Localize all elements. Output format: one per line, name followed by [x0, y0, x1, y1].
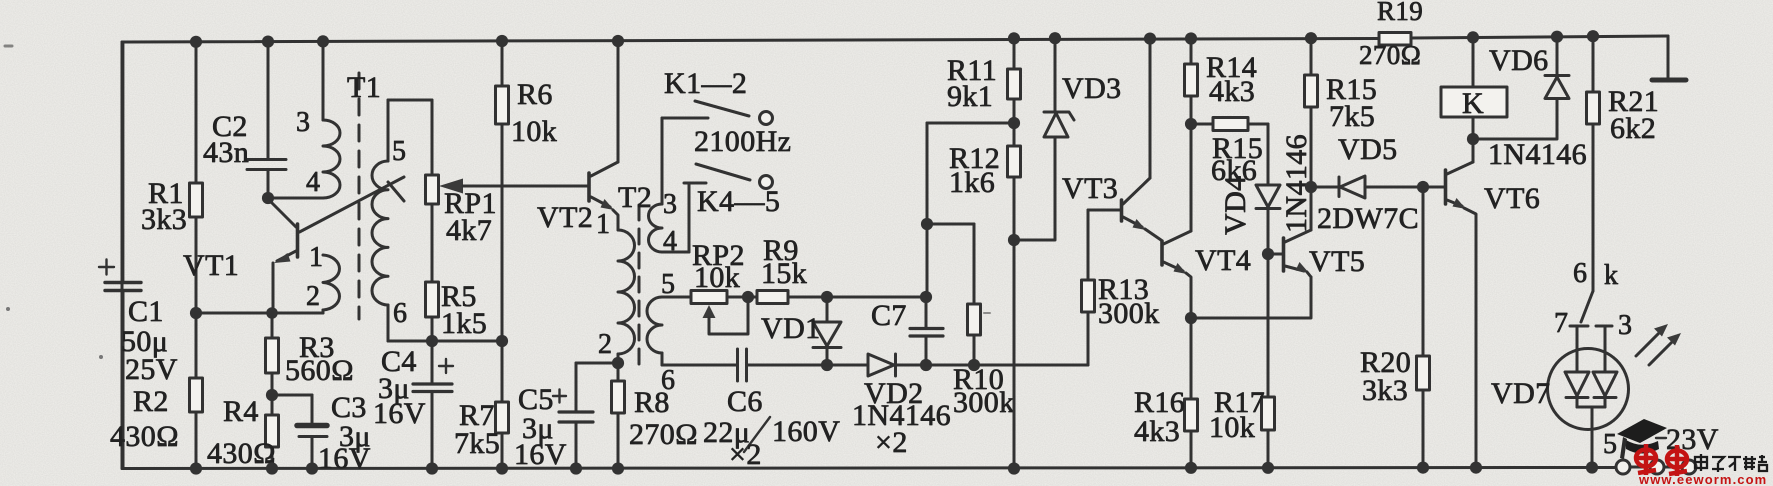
svg-text:2DW7C: 2DW7C [1317, 202, 1419, 235]
resistor R11 [947, 38, 1021, 123]
T2 core dashed line [638, 205, 641, 365]
supply terminal circles -23V [1616, 423, 1719, 474]
wire: R3/R4 node to C3 [272, 394, 312, 397]
capacitor C1 [99, 42, 178, 468]
node: relay coil / VT6 collector junction [1467, 133, 1479, 145]
optocoupler LED VD7 [1491, 326, 1629, 468]
svg-text:VT3: VT3 [1062, 172, 1118, 205]
svg-text:VT4: VT4 [1195, 244, 1251, 277]
svg-text:15k: 15k [761, 257, 807, 290]
svg-text:9k1: 9k1 [947, 80, 993, 113]
node: R20 bottom on ground bus [1417, 462, 1429, 474]
svg-text:1k5: 1k5 [441, 307, 487, 340]
node: R12 line bottom on ground bus [1008, 462, 1020, 474]
wire: detector line to R10 [926, 364, 974, 367]
svg-text:4: 4 [663, 226, 677, 257]
resistor R1 [141, 42, 203, 313]
switch K4-5 [696, 164, 780, 218]
transformer T1 primary winding pins 3-4 [296, 42, 340, 198]
svg-text:K1—2: K1—2 [664, 67, 747, 100]
svg-text:4k7: 4k7 [446, 214, 492, 247]
svg-text:VD6: VD6 [1489, 44, 1549, 77]
resistor R14 [1185, 39, 1258, 124]
svg-text:16V: 16V [318, 442, 371, 475]
transistor VT2 [537, 41, 618, 234]
svg-text:www.eeworm.com: www.eeworm.com [1638, 472, 1767, 486]
svg-text:1k6: 1k6 [949, 166, 995, 199]
resistor R7 [454, 341, 509, 469]
svg-text:2100Hz: 2100Hz [694, 125, 791, 158]
svg-text:C7: C7 [871, 299, 907, 332]
svg-text:6k2: 6k2 [1610, 112, 1656, 145]
node: VT3 collector on bus [1144, 33, 1156, 45]
svg-text:VD1: VD1 [761, 312, 821, 345]
transistor VT4 [1162, 124, 1251, 318]
resistor R6 [496, 41, 558, 341]
transformer T1 secondary winding pins 5-6 [372, 100, 407, 341]
svg-text:3: 3 [1618, 310, 1632, 341]
node: R3/R4/C3 junction [266, 389, 278, 401]
node: R6 top on bus [496, 35, 508, 47]
resistor R4 [207, 395, 279, 470]
svg-text:C6: C6 [727, 385, 763, 418]
node: R14 top on bus [1185, 32, 1197, 44]
svg-text:4k3: 4k3 [1209, 75, 1255, 108]
svg-text:1: 1 [309, 242, 323, 273]
resistor R3 [266, 313, 354, 395]
wire: collector node to T1 pin4 [268, 197, 323, 200]
node: R5 bottom junction [426, 335, 438, 347]
diode VD4 [1219, 124, 1280, 254]
wire: bottom ground bus [122, 468, 1616, 469]
svg-text:6: 6 [393, 298, 407, 329]
watermark text 电子下载站 [1695, 454, 1767, 472]
node: VD2 cathode / C7 bottom junction [920, 359, 932, 371]
svg-text:K4—5: K4—5 [697, 185, 780, 218]
svg-text:VT6: VT6 [1484, 182, 1540, 215]
wire: T1 secondary top to RP1 [388, 99, 432, 102]
svg-text:VT1: VT1 [183, 249, 239, 282]
wire: left supply rail [121, 42, 124, 469]
relay K coil [1441, 37, 1507, 139]
T1 core dashed line [358, 73, 361, 319]
node: relay top on bus [1467, 31, 1479, 43]
wire: emitter rail y=313 [196, 312, 323, 315]
svg-text:R19: R19 [1377, 0, 1423, 26]
node: R14 bottom / VT4 collector junction [1185, 118, 1197, 130]
scan speck top left [5, 45, 12, 48]
diode VD6 [1473, 37, 1569, 140]
svg-text:7k5: 7k5 [454, 427, 500, 460]
capacitor C4 [373, 341, 453, 469]
node: C5 bottom on ground bus [570, 462, 582, 474]
svg-text:4k3: 4k3 [1134, 415, 1180, 448]
transistor VT6 [1446, 139, 1541, 468]
node: RP2 right terminal [742, 291, 754, 303]
node: VD5 / VT5 collector junction [1305, 181, 1317, 193]
svg-text:25V: 25V [125, 353, 178, 386]
svg-text:R2: R2 [133, 385, 169, 418]
wire: T1 adjust arrow to VT1 base [300, 177, 405, 232]
watermark graduation cap [1617, 419, 1667, 459]
resistor R19 [1359, 0, 1423, 70]
node: VT2 collector on bus [612, 35, 624, 47]
svg-text:T2: T2 [618, 181, 652, 214]
node: VT4 emitter / R16 junction [1185, 312, 1197, 324]
node: R16 bottom on ground bus [1185, 462, 1197, 474]
resistor R12 [949, 123, 1021, 240]
capacitor C5 [514, 363, 593, 471]
svg-text:270Ω: 270Ω [1359, 40, 1421, 70]
svg-text:3: 3 [663, 189, 677, 220]
switch K1-2 [662, 67, 773, 125]
svg-text:430Ω: 430Ω [207, 437, 276, 470]
wire: RP1 wiper to VT2 base [463, 185, 588, 188]
node: VD3 top on bus [1049, 32, 1061, 44]
resistor R2 [110, 313, 203, 469]
svg-text:2: 2 [306, 281, 320, 312]
ground symbol top right [1652, 36, 1686, 80]
node: VT1 emitter / R3 junction [266, 307, 278, 319]
resistor R10 [953, 224, 1015, 419]
svg-text:6: 6 [661, 365, 675, 396]
zener diode VD3 [1014, 37, 1122, 240]
capacitor C3 [297, 391, 371, 475]
node: R15 top on bus [1305, 32, 1317, 44]
svg-text:560Ω: 560Ω [285, 354, 354, 387]
node: VD6 cathode on bus [1551, 31, 1563, 43]
scan speck near C1 [99, 355, 103, 359]
node: R21 top on bus [1587, 30, 1599, 42]
svg-text:430Ω: 430Ω [110, 420, 179, 453]
svg-text:VT2: VT2 [537, 201, 593, 234]
svg-text:×2: ×2 [875, 426, 908, 459]
wire: T1 secondary bottom [388, 340, 502, 343]
svg-text:×2: ×2 [729, 438, 762, 471]
resistor R9 [748, 234, 827, 304]
node: T1 pin3 top on bus [317, 35, 329, 47]
node: VT1 collector junction [262, 192, 274, 204]
node: VD4 cathode / VT5 base junction [1262, 248, 1274, 260]
capacitor C2 [203, 42, 286, 198]
transistor VT1 [183, 200, 298, 313]
transistor VT5 [1268, 187, 1365, 278]
svg-text:270Ω: 270Ω [629, 418, 698, 451]
wire: R11/R12 junction to branch [927, 122, 1014, 125]
resistor R8 [612, 363, 698, 469]
diode VD1 [761, 297, 841, 365]
svg-text:7k5: 7k5 [1329, 100, 1375, 133]
svg-text:VT5: VT5 [1309, 245, 1365, 278]
wire: R12 bottom branch down to C7 node [926, 123, 929, 297]
node: R11/R12 junction [1008, 117, 1020, 129]
node: VT6 emitter on ground bus [1470, 462, 1482, 474]
wire: branch to R10 top [927, 223, 974, 226]
node: C2 top on bus [262, 36, 274, 48]
svg-text:k: k [1604, 260, 1618, 291]
svg-text:43n: 43n [203, 136, 249, 169]
potentiometer RP1 [426, 100, 497, 282]
node: VD1 bottom junction [821, 359, 833, 371]
svg-text:300k: 300k [1098, 297, 1160, 330]
wire: T2 pin5 to RP2 [662, 296, 691, 299]
svg-text:R4: R4 [223, 395, 259, 428]
diode VD5 (2DW7C) [1311, 133, 1423, 235]
node: R9 right / VD1 top junction [821, 291, 833, 303]
svg-text:VD3: VD3 [1062, 72, 1122, 105]
wire: top supply bus left of R19 [122, 39, 1379, 43]
transistor VT3 [1062, 39, 1161, 240]
resistor R15 (6k6) [1191, 118, 1268, 188]
resistor R20 [1360, 187, 1430, 468]
node: R11 top on bus [1008, 32, 1020, 44]
svg-text:7: 7 [1554, 308, 1568, 339]
scan speck left middle [6, 307, 10, 311]
svg-text:3k3: 3k3 [141, 203, 187, 236]
svg-text:10k: 10k [1209, 411, 1255, 444]
resistor R15 (7k5) [1305, 38, 1378, 187]
svg-text:10k: 10k [694, 261, 740, 294]
svg-text:VD5: VD5 [1338, 133, 1398, 166]
wire: T2 pin6 to C6 [662, 364, 737, 367]
capacitor C6 [703, 349, 868, 471]
capacitor C7 [871, 297, 943, 365]
diode VD2 [852, 354, 951, 459]
node: T2 pin2 junction [612, 357, 624, 369]
svg-text:10k: 10k [511, 115, 557, 148]
wire: top supply bus right of R19 [1411, 36, 1668, 38]
node: R1 top on bus [190, 36, 202, 48]
svg-text:R6: R6 [517, 78, 553, 111]
node: R7 bottom on ground bus [496, 462, 508, 474]
wire: T2 pin2 to C5 [576, 362, 618, 365]
wire: detector line to R13 [974, 312, 1088, 365]
wire: emitter rail to VT5 [1191, 277, 1311, 318]
wire: R12 node to ground bus [1013, 240, 1016, 469]
svg-text:K: K [1462, 87, 1484, 120]
resistor R5 [426, 280, 488, 341]
node: R2 bottom on ground bus [190, 462, 202, 474]
node: R10 bottom junction [968, 359, 980, 371]
transformer T2 primary winding pins 1-2 [596, 209, 635, 363]
svg-text:4: 4 [306, 167, 320, 198]
wire: node to VT6 base [1423, 186, 1444, 189]
svg-text:VD7: VD7 [1491, 377, 1551, 410]
node: R17 bottom on ground bus [1262, 462, 1274, 474]
svg-text:160V: 160V [772, 415, 840, 448]
node: C3 bottom on ground bus [306, 462, 318, 474]
node: C4 bottom on ground bus [426, 462, 438, 474]
resistor R17 [1209, 254, 1275, 468]
transformer T1 feedback winding pins 1-2 [306, 242, 339, 313]
node: VD7 pin5 on ground bus [1586, 461, 1598, 473]
svg-text:5: 5 [661, 269, 675, 300]
node: R8 bottom on ground bus [612, 462, 624, 474]
switch k contact 6 [1554, 258, 1632, 341]
svg-text:1N4146: 1N4146 [1488, 138, 1587, 171]
node: C7 top junction [920, 291, 932, 303]
svg-text:3: 3 [296, 107, 310, 138]
svg-text:T1: T1 [347, 71, 381, 104]
svg-text:VD4: VD4 [1219, 175, 1252, 235]
resistor R16 [1134, 318, 1198, 468]
wire: R9 node to C7 node [827, 296, 926, 299]
node: VD5 anode / R20 junction [1417, 181, 1429, 193]
scan speck near R10 [984, 312, 990, 314]
svg-text:5: 5 [1603, 429, 1617, 460]
watermark bug logo 虫虫 [1636, 444, 1687, 476]
transformer T2 upper secondary pins 3-4 [649, 118, 707, 257]
svg-text:C1: C1 [128, 295, 164, 328]
node: R12 bottom / VD3 junction [1008, 234, 1020, 246]
svg-text:3k3: 3k3 [1362, 374, 1408, 407]
svg-text:16V: 16V [373, 397, 426, 430]
node: R1 bottom junction [190, 307, 202, 319]
potentiometer RP2 [691, 239, 748, 334]
svg-text:6: 6 [1573, 258, 1587, 289]
svg-text:1: 1 [596, 209, 610, 240]
transformer T2 lower secondary pins 5-6 [647, 269, 675, 396]
svg-text:2: 2 [598, 329, 612, 360]
node: R4 bottom on ground bus [266, 462, 278, 474]
svg-text:16V: 16V [514, 438, 567, 471]
svg-text:5: 5 [392, 136, 406, 167]
resistor R13 [1082, 210, 1160, 365]
LED light emission arrows [1636, 324, 1681, 365]
resistor R21 [1587, 36, 1660, 291]
node: T1 bottom / R6 R7 junction [496, 335, 508, 347]
svg-text:300k: 300k [953, 386, 1015, 419]
node: R10 branch junction [921, 218, 933, 230]
